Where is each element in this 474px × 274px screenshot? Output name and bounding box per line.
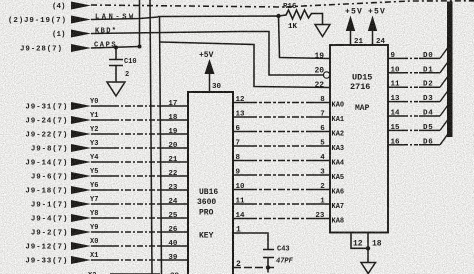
wire D5 bbox=[388, 129, 404, 131]
partial wire X2 bbox=[110, 273, 160, 274]
wire KA6 net bbox=[233, 189, 250, 191]
junction CAPS to vertical V1 bbox=[138, 45, 142, 49]
bottom pins 12 and 18 of UD15 bbox=[351, 233, 368, 263]
wire D3 bbox=[388, 101, 404, 103]
junction on CAPS wire bbox=[114, 46, 118, 50]
wire LAN-SW bbox=[91, 17, 158, 20]
IC UD15 2716 box bbox=[330, 45, 388, 233]
wire net (4) top row bbox=[91, 1, 474, 7]
arrow Y1 bbox=[71, 116, 91, 124]
connector arrow J9-19 bbox=[71, 16, 91, 24]
bus entry D1 bbox=[440, 62, 448, 73]
wire D4 bbox=[388, 115, 404, 117]
bus entry D4 bbox=[440, 105, 448, 116]
wire D6 bbox=[388, 144, 404, 146]
vertical wire V3 bbox=[160, 17, 162, 274]
junction at R16 bbox=[276, 14, 280, 18]
wire Y5 bbox=[91, 175, 113, 177]
wire Y8 bbox=[91, 217, 113, 219]
IC U B16 keyboard encoder box bbox=[188, 92, 233, 274]
wire Y6 bbox=[91, 189, 113, 191]
bus entry D6 bbox=[440, 134, 448, 145]
wire D1 bbox=[388, 72, 404, 74]
KEY pin 1 to capacitor C43 bbox=[233, 233, 274, 273]
junction at C43 bbox=[266, 265, 270, 269]
wire X0 bbox=[91, 245, 113, 247]
vertical wire V1 bbox=[139, 0, 141, 47]
wire Y9 bbox=[91, 231, 113, 233]
ground below R16 bbox=[315, 25, 330, 37]
connector arrow (4) bbox=[71, 2, 91, 10]
wire D2 bbox=[388, 86, 404, 88]
ground below UD15 bbox=[361, 263, 376, 274]
wire to pin 22 of UD15 bbox=[161, 42, 331, 88]
arrow Y8 bbox=[71, 214, 91, 222]
wire Y0 bbox=[91, 105, 113, 107]
connector arrow J9-28 bbox=[71, 44, 91, 52]
wire to pin 19 of U D15 bbox=[158, 16, 330, 59]
wire Y7 bbox=[91, 203, 113, 205]
wire KA5 net bbox=[233, 174, 250, 176]
wire CAPS bbox=[91, 47, 140, 49]
capacitor C10 bbox=[109, 48, 123, 83]
bus entry D3 bbox=[440, 91, 448, 102]
connector arrow (1) bbox=[71, 30, 91, 38]
data bus bar bbox=[447, 2, 453, 138]
wire X1 bbox=[91, 259, 113, 261]
wire Y4 bbox=[91, 161, 113, 163]
wire KA0 net bbox=[233, 102, 250, 104]
KEY pin 2 wire bbox=[233, 267, 276, 269]
wire KA3 net bbox=[233, 145, 250, 147]
bus entry D5 bbox=[440, 119, 448, 130]
wire KBD* bbox=[91, 32, 323, 76]
arrow Y3 bbox=[71, 144, 91, 152]
wire KA8 net bbox=[233, 218, 250, 220]
arrow X1 bbox=[71, 256, 91, 264]
wire D0 bbox=[388, 57, 404, 59]
wire KA1 net bbox=[233, 116, 250, 118]
arrow Y9 bbox=[71, 228, 91, 236]
resistor R16 bbox=[279, 10, 323, 25]
wire KA4 net bbox=[233, 160, 250, 162]
wire Y1 bbox=[91, 119, 113, 121]
wire Y2 bbox=[91, 133, 113, 135]
wire KA2 net bbox=[233, 131, 250, 133]
arrow Y7 bbox=[71, 200, 91, 208]
arrow Y4 bbox=[71, 158, 91, 166]
vertical wire V2 bbox=[150, 0, 152, 274]
wire Y3 bbox=[91, 147, 113, 149]
ground below C10 bbox=[107, 82, 125, 96]
bus entry D2 bbox=[440, 76, 448, 87]
arrow X0 bbox=[71, 242, 91, 250]
wire KA7 net bbox=[233, 203, 250, 205]
arrow Y6 bbox=[71, 186, 91, 194]
arrow Y0 bbox=[71, 102, 91, 110]
arrow Y5 bbox=[71, 172, 91, 180]
bus entry D0 bbox=[440, 47, 448, 58]
arrow Y2 bbox=[71, 130, 91, 138]
